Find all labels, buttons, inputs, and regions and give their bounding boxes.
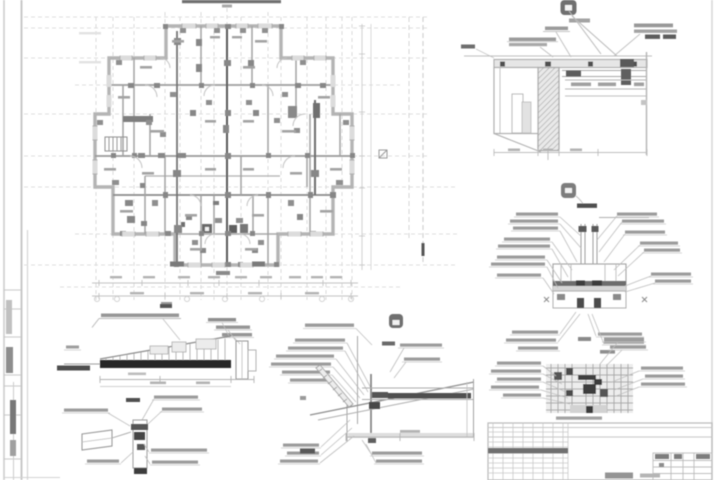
ramp slope line [100,336,231,359]
left wall structure outline [494,68,538,134]
title block left table columns [493,423,568,480]
detail bottom badge mark [561,183,576,198]
hatched brick column [538,68,559,151]
interior wall horizontal partial [145,175,280,177]
left margin bottom line [4,477,60,479]
window tick marks [93,24,355,268]
slab anchor marks [500,62,637,67]
title block bottom center text [605,473,633,479]
ramp dimension line 1 [100,379,254,381]
column continuation below slab [547,151,549,161]
plan sheet title bar [182,0,281,3]
connection left long label [64,409,108,412]
footing top small label [578,337,591,341]
node1 bottom label stacks [506,331,644,350]
ramp right top label [208,318,236,321]
node1 left x mark [544,297,549,302]
roof right small dark label [382,342,395,346]
ramp small dark title [160,304,172,308]
footing leaders [541,342,643,404]
roof tiny mark left [300,396,306,400]
ramp dimension line 2 [100,386,231,388]
node1 inner verticals [561,264,616,291]
footing mesh grid [546,364,633,413]
title block stamp grid right [653,453,712,480]
connection dark title [126,398,140,402]
plan caption small note [161,302,172,305]
interior wall horizontal main [109,84,333,86]
faint dim text left margin lower [79,61,101,63]
roof bottom dimension [346,436,474,438]
faint dim text left margin upper [79,32,101,34]
ramp left dark label [57,366,90,371]
interior vertical walls [123,26,340,265]
roof left label stack [271,339,345,382]
room door arcs [130,58,305,244]
roof dark purlin bar [388,393,471,399]
right margin dashed section line 2 [422,17,424,263]
plan bottom dimension row 2 [92,293,358,299]
connection box arrow [112,432,131,438]
plan caption text [101,314,179,318]
roof node dark cluster [372,392,388,398]
section mark right [379,150,387,158]
node1 lower box [553,291,626,308]
roof vertical chimney line [357,336,359,424]
left wall inner sill [522,102,531,133]
plan title underline mark [222,5,232,8]
ramp top leader [163,319,180,340]
roof bottom left labels [280,444,319,463]
footing bottom labels [556,417,602,420]
roof bottom leaders [320,420,354,463]
left margin stamp divider line [13,382,15,480]
right vertical edge of detail [646,52,648,155]
ramp left small label [66,346,79,349]
right edge small tick [641,100,647,105]
sheet left edge line [3,0,5,480]
left wall inner window box [512,94,523,133]
window breaks in outer walls [93,24,355,268]
connection center dark blobs [131,424,148,430]
connection center post [133,420,147,468]
connection bottom labels [87,460,119,463]
roof steep hatched member [316,365,353,407]
grid bubbles bottom [94,296,353,301]
bottom wall dark emphasis [170,262,184,267]
roof detail badge mark [389,314,403,328]
footing left labels [491,362,541,397]
node1 right leaders [597,216,655,292]
right side vertical dimension line 2 [370,24,372,270]
detail badge mark top [561,0,577,15]
plan caption underline [92,319,181,328]
ramp black base bar [100,360,231,368]
node1 right beam line [599,217,649,219]
node1 post top anchors [579,226,587,232]
node1 left leaders [543,217,581,294]
dashed grid horizontals [24,17,458,287]
ramp right end post [236,341,248,379]
title block left table rows [488,432,568,473]
left wall inner line [499,68,501,134]
footing right labels [641,367,685,386]
roof left leaders fan [332,343,372,406]
sheet left frame line [21,0,23,480]
left margin rotated stamp text upper [6,300,12,334]
left margin stamp boxes [4,290,21,459]
sheet right border [711,0,713,480]
connection right label 2 [162,408,202,411]
connection anchor box [82,430,112,450]
dashed grid verticals [96,8,352,300]
right duct wall dark [314,100,316,195]
center party wall dark [226,26,228,265]
footing top labels [604,338,644,341]
roof right post [473,379,475,437]
beam dark bearing plates [566,71,581,77]
ramp small boxes on slope [150,346,168,354]
node1 dark band [553,281,626,286]
footing bottom gray block [570,405,607,413]
footing mesh backing [546,364,633,413]
interior wall horizontal dark [113,194,333,196]
connection top-right label [154,396,198,399]
plan bottom dimension row 1 [92,280,358,286]
small wall posts [111,24,355,267]
beam right row 2 with text [565,79,647,81]
roof bottom right labels [372,452,422,463]
stamp dark header cells [655,454,669,459]
top-right dark text rows [645,35,660,39]
label box A [545,27,568,31]
ramp bar left extension line [64,363,100,365]
stair landing dark [123,116,153,122]
dark blobs near center [229,225,237,233]
node1 right x mark [642,297,647,302]
node1 body box [553,264,626,291]
small note between details [600,350,615,354]
left wall base diagonal [494,134,541,153]
interior wall horizontal second [95,155,352,157]
duct block 2 [313,103,320,118]
sheet left inner frame line [27,230,29,480]
beam right row 1 [562,70,647,72]
room label text blobs [104,36,342,251]
stamp letter cell [659,463,664,467]
roof right labels [400,344,442,347]
label box right upper [634,24,673,28]
label box B two lines [509,38,556,42]
roof top label [305,324,354,327]
connection leaders top [108,399,162,426]
right side vertical dimension line 1 [359,24,365,270]
title block outline [488,423,712,480]
dimension text blobs bottom [110,276,342,294]
wc fixture square [202,224,212,233]
right margin dashed section line 1 [408,17,410,240]
node1 gray band [553,286,626,291]
node1 hanger posts [581,224,597,264]
plan outer wall outline [95,26,352,265]
ramp slope hatch ticks [106,339,225,361]
section line dark segment [422,243,425,256]
stair block dark [105,137,127,151]
left margin rotated stamp text bottom 2 [10,440,16,456]
bottom dimension line of detail [494,152,647,154]
node1 left label stack [491,213,558,277]
node1 title dark [577,204,597,208]
footing dark blobs [566,368,573,375]
extra interior detail marks [97,28,349,245]
title block full-width rows [488,427,712,429]
left margin rotated stamp text dark [6,347,13,373]
duct block 1 [288,106,297,118]
left small label [461,45,475,49]
leader from circle 1 [569,11,601,54]
title block dark header row [488,448,568,453]
floor slab band [494,60,647,68]
roof center dark post [370,374,372,441]
roof sloped rafter lines [310,382,474,415]
roof bottom gray band [348,433,474,438]
leader from circle 2 [572,16,617,56]
slab top thin line [464,55,652,57]
interior wall bottom band [175,233,278,235]
roof horizontal members [362,387,474,389]
left party wall dark [176,31,178,265]
node1 right label stack [617,213,691,283]
left margin rotated stamp text bottom [10,400,16,434]
